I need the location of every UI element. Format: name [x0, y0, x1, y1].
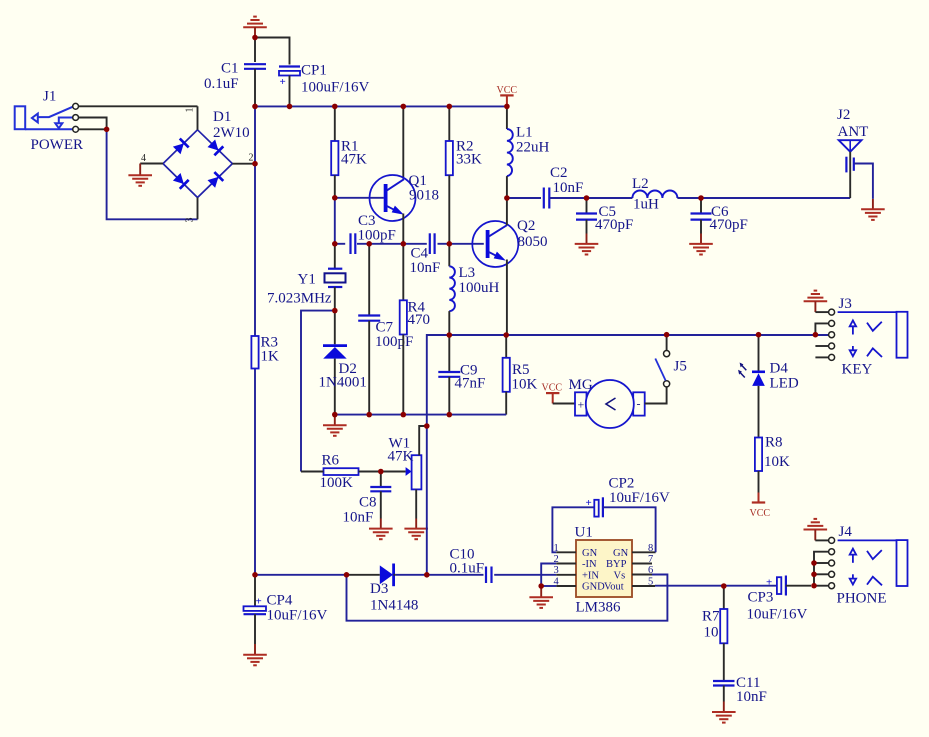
svg-text:J2: J2 — [837, 107, 850, 123]
wire: J3 pin5 stub — [815, 356, 828, 358]
wire: pin4 to ground — [541, 585, 556, 587]
wire: wiper line to W1 — [380, 471, 405, 473]
svg-text:R8: R8 — [765, 435, 783, 451]
pin 3 — [556, 574, 576, 576]
svg-text:22uH: 22uH — [516, 140, 550, 156]
wire: bridge pin4 to ground — [140, 163, 163, 165]
VCC power port (top) — [497, 85, 518, 107]
resistor R8 10K — [755, 386, 790, 493]
wire: VCC rail y=106.4 — [255, 105, 507, 107]
ground (C11) — [712, 702, 736, 723]
ground (J4) — [804, 519, 828, 541]
svg-text:CP1: CP1 — [301, 63, 327, 79]
svg-text:100pF: 100pF — [375, 334, 413, 350]
resistor R4 470 — [400, 244, 430, 415]
ground (main rail) — [323, 415, 347, 436]
ground (C6) — [689, 234, 713, 255]
svg-text:+: + — [586, 497, 592, 509]
wire: R1 bottom to C3 line — [334, 198, 336, 244]
pin 1 — [556, 551, 576, 553]
wire: C1 bottom lead — [254, 69, 256, 107]
crystal Y1 7.023MHz — [267, 244, 346, 311]
svg-text:GND: GND — [582, 582, 605, 593]
capacitor C3 100pF — [351, 213, 396, 254]
resistor R6 100K — [301, 453, 380, 492]
wire: J1 pin1 to bridge top — [79, 105, 198, 107]
wire: J1 pin2/pin3 tie — [79, 118, 107, 130]
svg-text:10nF: 10nF — [553, 180, 584, 196]
svg-text:100uF/16V: 100uF/16V — [301, 80, 370, 96]
svg-text:U1: U1 — [575, 525, 593, 541]
microphone MG — [569, 377, 645, 428]
svg-text:L1: L1 — [516, 125, 533, 141]
wire: bridge pin1 stub — [197, 106, 199, 130]
wire: Y1/D2 node to R6 branch — [301, 311, 335, 472]
svg-text:-: - — [637, 397, 641, 411]
svg-text:C2: C2 — [550, 165, 568, 181]
svg-text:J5: J5 — [674, 359, 687, 375]
wire: Vs feedback loop — [347, 575, 668, 621]
capacitor C11 10nF — [713, 675, 767, 705]
svg-text:VCC: VCC — [750, 508, 771, 519]
svg-text:1N4148: 1N4148 — [370, 598, 418, 614]
svg-text:100K: 100K — [320, 475, 354, 491]
connector J1 POWER — [15, 89, 83, 153]
capacitor CP2 10uF/16V (pins 1-8) — [552, 476, 670, 553]
svg-text:10uF/16V: 10uF/16V — [267, 608, 328, 624]
svg-text:47K: 47K — [341, 151, 367, 167]
transistor Q1 9018 — [370, 106, 440, 221]
svg-text:0.1uF: 0.1uF — [204, 76, 239, 92]
ground (U1 pin4) — [529, 586, 553, 608]
svg-text:0.1uF: 0.1uF — [450, 561, 485, 577]
svg-text:100uH: 100uH — [459, 280, 500, 296]
svg-text:470: 470 — [408, 312, 431, 328]
svg-text:BYP: BYP — [606, 559, 627, 570]
svg-text:POWER: POWER — [31, 137, 84, 153]
svg-text:1N4001: 1N4001 — [319, 375, 367, 391]
inductor L2 1uH — [632, 176, 677, 213]
ground (C5) — [575, 234, 599, 255]
pin 6 — [632, 574, 652, 576]
resistor R3 1K — [251, 335, 279, 369]
capacitor C10 0.1uF — [450, 547, 492, 584]
svg-text:10nF: 10nF — [343, 510, 374, 526]
bridge rectifier D1 2W10 — [141, 108, 254, 223]
wire: J2 sleeve to ground — [854, 164, 873, 199]
svg-text:D4: D4 — [770, 361, 789, 377]
svg-text:J1: J1 — [43, 89, 56, 105]
pin 8 — [632, 551, 656, 553]
potentiometer W1 47K — [388, 426, 427, 519]
svg-text:GN: GN — [582, 548, 598, 559]
capacitor CP4 10uF/16V — [244, 575, 328, 644]
svg-text:VCC: VCC — [542, 383, 563, 394]
connector J2 ANT — [837, 107, 868, 198]
svg-text:2W10: 2W10 — [213, 125, 250, 141]
ground (bridge pin4) — [128, 164, 152, 186]
svg-text:10nF: 10nF — [736, 689, 767, 705]
power port VCC (R8) — [750, 493, 771, 519]
inductor L3 100uH — [449, 244, 499, 335]
svg-text:GN: GN — [613, 548, 629, 559]
ground (W1) — [404, 519, 428, 540]
capacitor C2 10nF — [544, 188, 550, 209]
ground (CP4) — [243, 644, 267, 665]
resistor R7 10 — [702, 586, 727, 681]
svg-text:+: + — [280, 76, 286, 88]
svg-text:1: 1 — [185, 108, 196, 113]
svg-text:L2: L2 — [632, 176, 649, 192]
svg-text:PHONE: PHONE — [837, 591, 887, 607]
wire: CP1 bottom lead — [289, 76, 291, 107]
svg-text:470pF: 470pF — [595, 217, 633, 233]
svg-text:R6: R6 — [322, 453, 340, 469]
svg-text:KEY: KEY — [842, 362, 873, 378]
svg-text:-IN: -IN — [582, 559, 597, 570]
capacitor C6 470pF — [691, 198, 748, 234]
svg-text:7.023MHz: 7.023MHz — [267, 291, 332, 307]
wire: J3 pin4 stub — [815, 345, 828, 347]
ground (J3) — [804, 291, 828, 313]
svg-text:CP4: CP4 — [267, 593, 293, 609]
svg-text:10uF/16V: 10uF/16V — [747, 607, 808, 623]
capacitor C4 10nF — [410, 233, 441, 275]
transistor Q2 8050 — [472, 218, 547, 267]
wire: L2 to C6 node to antenna — [677, 197, 850, 199]
op-amp U1 LM386 — [554, 525, 654, 616]
ground (J2) — [861, 199, 885, 220]
switch J5 — [655, 335, 687, 387]
svg-text:4: 4 — [141, 153, 146, 164]
svg-text:Q2: Q2 — [517, 218, 535, 234]
svg-text:LED: LED — [770, 376, 799, 392]
capacitor C1 — [244, 64, 266, 69]
capacitor CP1 (polarized) — [279, 67, 300, 89]
pin 2 — [556, 563, 576, 565]
wire: W1 top drop to audio line — [426, 426, 428, 575]
wire: key line y=335 with left drop x=426.8 — [427, 335, 832, 426]
svg-text:Vs: Vs — [614, 570, 626, 581]
svg-text:+: + — [766, 577, 772, 589]
wire: J3 pin2 tie to key line — [815, 323, 828, 334]
wire: audio/supply line y=574.8 — [255, 574, 556, 576]
svg-text:1K: 1K — [261, 349, 280, 365]
svg-text:3: 3 — [185, 218, 196, 223]
wire: C1 top lead — [254, 38, 256, 63]
resistor R1 47K — [331, 106, 367, 197]
wire: J4 pins 2-5 tie — [814, 552, 829, 586]
svg-text:+: + — [578, 398, 585, 412]
svg-text:47nF: 47nF — [455, 376, 486, 392]
wire: Vout line — [655, 585, 777, 587]
connector J4 PHONE — [829, 524, 908, 607]
wire: branch to CP1 — [255, 38, 290, 65]
connector J3 KEY — [829, 296, 908, 378]
svg-text:10K: 10K — [512, 377, 538, 393]
svg-text:10K: 10K — [764, 454, 790, 470]
svg-text:C8: C8 — [359, 495, 377, 511]
wire: Q1 emitter down — [402, 214, 404, 244]
wire: trunk VCC x=255 — [254, 106, 256, 574]
svg-text:R7: R7 — [702, 609, 720, 625]
capacitor C9 47nF — [438, 335, 485, 415]
svg-text:8050: 8050 — [518, 234, 548, 250]
wire: bridge pin3 stub — [197, 198, 199, 220]
svg-text:+IN: +IN — [582, 570, 599, 581]
inductor L1 22uH — [507, 106, 550, 198]
ground (C8) — [369, 519, 393, 540]
capacitor CP3 10uF/16V — [747, 576, 812, 623]
svg-text:LM386: LM386 — [576, 600, 622, 616]
pin 5 — [632, 585, 655, 587]
LED D4 — [738, 335, 799, 392]
wire: J4 pin1 to ground — [815, 539, 828, 541]
wire: J1 down to bridge bottom — [107, 129, 198, 219]
svg-text:10: 10 — [704, 625, 719, 641]
wire: L1 bottom to C2 — [507, 197, 541, 199]
wire: oscillator line y=243.8 — [335, 243, 484, 245]
wire: Q2 emitter down — [506, 260, 508, 336]
svg-text:J3: J3 — [839, 296, 852, 312]
pin 4 — [556, 585, 576, 587]
svg-text:J4: J4 — [839, 524, 853, 540]
svg-text:9018: 9018 — [409, 188, 439, 204]
capacitor C5 470pF — [576, 198, 633, 234]
svg-text:Y1: Y1 — [298, 271, 316, 287]
svg-text:CP3: CP3 — [748, 590, 774, 606]
svg-text:10uF/16V: 10uF/16V — [609, 490, 670, 506]
resistor R5 10K — [503, 335, 538, 415]
wire: ground rail y=414.6 — [335, 414, 506, 416]
svg-text:2: 2 — [249, 153, 254, 164]
svg-text:47K: 47K — [388, 449, 414, 465]
svg-text:VCC: VCC — [497, 85, 518, 96]
power port VCC (MG) — [542, 383, 563, 404]
wire: MG to J5 — [645, 387, 667, 404]
wire: bridge pin2 to trunk — [232, 163, 255, 165]
svg-text:10nF: 10nF — [410, 260, 441, 276]
wire: C2 to C5 node to L2 — [550, 197, 633, 199]
capacitor C8 10nF — [343, 472, 392, 526]
wire: VCC to MG — [553, 403, 575, 405]
wire: J3 pin1 to ground — [815, 311, 828, 313]
svg-text:L3: L3 — [459, 265, 476, 281]
svg-text:100pF: 100pF — [358, 228, 396, 244]
ground (top, above C1/CP1) — [243, 17, 267, 38]
svg-text:D3: D3 — [370, 581, 388, 597]
diode D2 1N4001 — [319, 311, 367, 415]
svg-text:470pF: 470pF — [710, 217, 748, 233]
wire: Q2 collector up — [506, 198, 508, 225]
resistor R2 33K — [446, 106, 482, 243]
pin 7 — [632, 563, 652, 565]
svg-text:D1: D1 — [213, 109, 231, 125]
capacitor C7 100pF — [358, 244, 413, 415]
diode D3 1N4148 — [347, 564, 419, 614]
svg-text:+: + — [256, 596, 262, 608]
svg-text:MG: MG — [569, 377, 593, 393]
svg-text:Vout: Vout — [604, 582, 624, 593]
svg-text:ANT: ANT — [838, 124, 869, 140]
wire: Q1 base wire — [335, 197, 384, 199]
svg-text:1uH: 1uH — [633, 197, 659, 213]
wire: pin2 tie down to pin4/ground — [541, 564, 556, 587]
svg-text:C1: C1 — [221, 61, 239, 77]
svg-text:33K: 33K — [456, 151, 482, 167]
